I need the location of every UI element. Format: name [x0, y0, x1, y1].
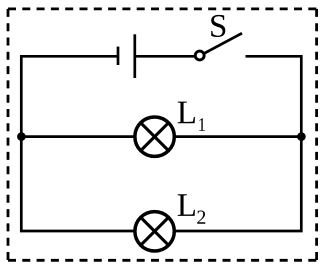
wire: top-left loop (battery to left corner, down left side, to lamp L2) [21, 56, 136, 231]
wire: battery positive plate to switch contact [135, 55, 196, 58]
node: right junction dot [297, 132, 306, 141]
wire: right stub from switch, down right side, to lamp L2 [173, 56, 301, 231]
label S [211, 15, 225, 37]
battery cell: long (positive) plate [133, 34, 136, 78]
node: left junction dot [17, 132, 26, 141]
lamp L2: circle with X [135, 212, 174, 251]
wire: left node to lamp L1 [21, 135, 136, 138]
switch S: open blade [204, 33, 242, 53]
battery cell: short (negative) plate [117, 47, 120, 65]
lamp L1: circle with X [135, 117, 174, 156]
switch S: fixed contact circle [195, 51, 204, 60]
label L1 [178, 102, 205, 131]
label L2 [178, 194, 206, 224]
wire: lamp L1 to right node [173, 135, 301, 138]
